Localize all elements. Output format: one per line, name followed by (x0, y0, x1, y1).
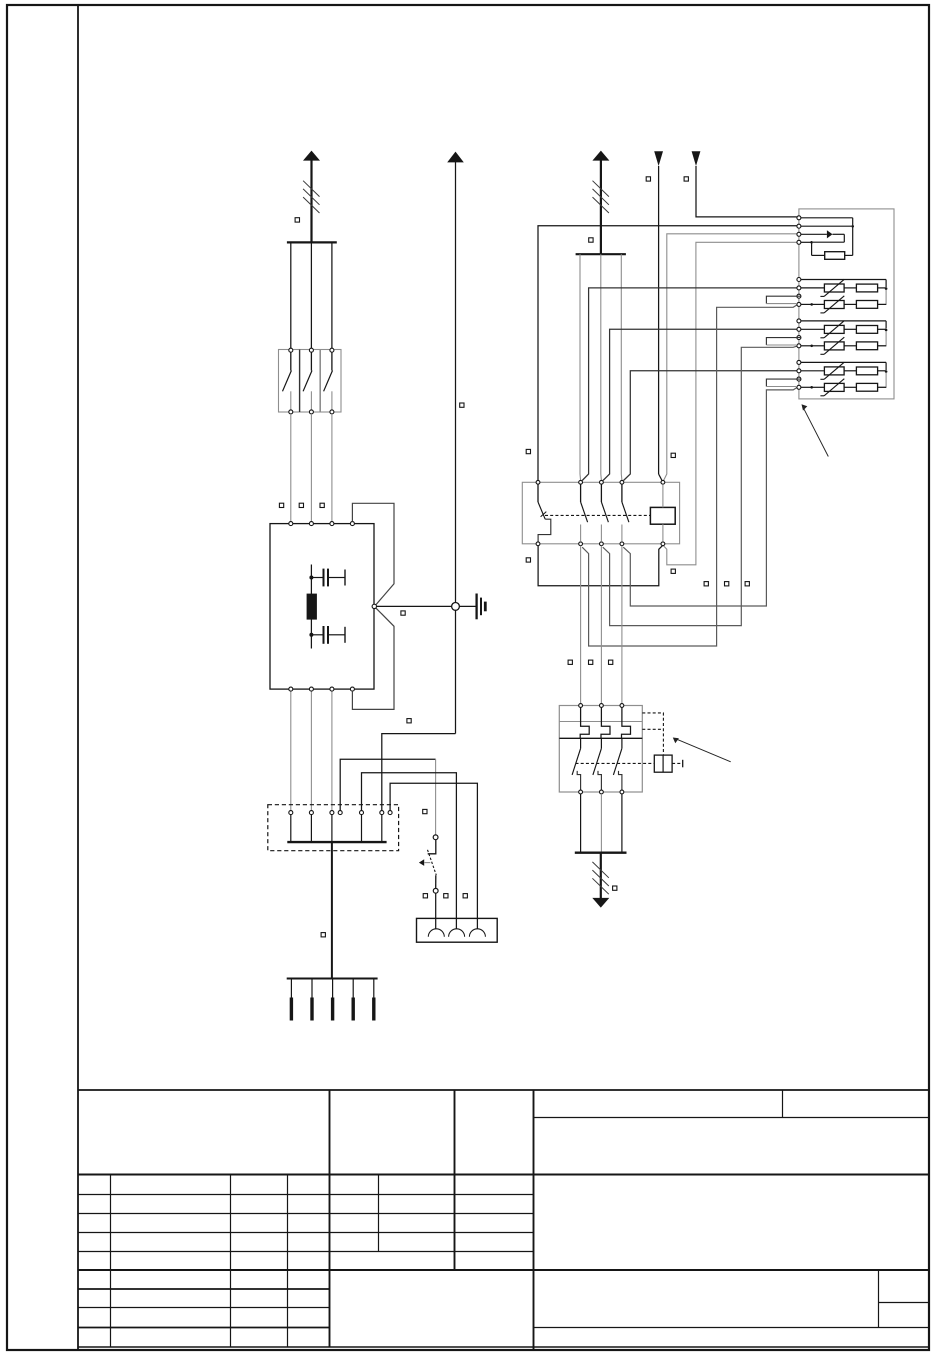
label square near main drop (321, 933, 325, 937)
F1 group 1 output link (878, 290, 887, 305)
XT1 terminal drop to bar (361, 815, 363, 843)
label squares above QF2 (568, 660, 572, 664)
KM1 lower terminal (579, 542, 583, 546)
XT1 terminal (380, 811, 384, 815)
wire KM1 pole2 to SPD group1 return (582, 304, 798, 646)
F1 group 1 bypass wire (801, 279, 886, 281)
F1 group 2 varistor RV3 (801, 328, 825, 330)
contactor KM1 housing (522, 482, 679, 544)
SA1 operator arrow (419, 859, 424, 866)
switch SA1 contact (428, 840, 436, 854)
wire QF1 pole 1 to filter Z1 (290, 414, 292, 522)
incoming supply arrow W3 (592, 151, 609, 161)
wire bus A to QF1 pole1 (290, 242, 292, 348)
wire XT1 to switch SA1 (340, 759, 435, 810)
Z1 capacitor C2 (311, 634, 322, 636)
XT1 collector bar (287, 841, 386, 843)
XT1 terminal (388, 811, 392, 815)
F1 varistor group 2 terminals (797, 319, 801, 323)
wire KM1 aux to SPD terminal 2 (538, 226, 797, 480)
F1 gas tube module (797, 216, 801, 220)
F1 group 1 varistor RV1 (801, 287, 825, 289)
outgoing bus bar node C (575, 852, 627, 854)
QF2 lower terminal (600, 790, 604, 794)
F1 group 1 varistor RV2 (801, 303, 812, 305)
XT1 terminal (338, 811, 342, 815)
KM1 main contact (600, 484, 602, 502)
Z1 shield terminal (372, 604, 376, 608)
F1 varistor group 1 terminals (797, 278, 801, 282)
wire SPD terminal 3 to KM1 coil (664, 234, 797, 480)
circuit breaker QF1 housing (279, 350, 342, 413)
wire KM1 aux lower to coil return (538, 546, 662, 586)
down feeder arrow W5 (692, 151, 701, 166)
QF1 pole 1 contact (289, 348, 293, 352)
wire KM1 pole3 to SPD group2 return (603, 346, 798, 626)
Z1 output terminal (289, 687, 293, 691)
F1 group 2 varistor RV4 (801, 345, 812, 347)
Z1 input terminal (330, 522, 334, 526)
label squares on SPD return wires (704, 582, 708, 586)
QF1 pole 3 contact (330, 348, 334, 352)
KM1 trip link dashed (545, 514, 650, 516)
wire W5 to SPD terminal 1 (696, 166, 797, 217)
QF2 upper terminal (620, 704, 624, 708)
F1 group 1 resistor R1 (844, 287, 856, 289)
wire XT1 to lamp 2 (362, 773, 457, 929)
incoming supply arrow W1 (303, 151, 320, 161)
wire earth to terminal strip XT1 (382, 734, 456, 811)
F1 group 3 T3-T4 jumper (766, 379, 801, 386)
F1 group 3 varistor RV5 (801, 370, 825, 372)
QF2 operator (654, 755, 672, 772)
down feeder arrow W4 (654, 151, 663, 166)
KM1 coil (650, 507, 675, 524)
QF2 thermal element (580, 707, 589, 738)
SA1 lower terminal (435, 875, 437, 888)
PE riser arrow W2 (447, 152, 464, 163)
Z1 capacitor C1 (311, 577, 322, 579)
XT1 terminal drop to bar (290, 815, 292, 843)
label square for W4 (646, 177, 650, 181)
motor breaker QF2 housing (559, 706, 642, 793)
KM1 coil leads (662, 484, 664, 507)
label square for W1 (295, 218, 299, 222)
KM1 lower terminal (536, 542, 540, 546)
QF2 upper terminal (600, 704, 604, 708)
annotation arrow to QF2 (675, 739, 731, 762)
Z1 output terminal (330, 687, 334, 691)
QF2 contact (600, 738, 602, 748)
title block header row line (78, 1174, 929, 1176)
Z1 input terminal (350, 522, 354, 526)
three-phase slashes on W1 (303, 181, 319, 197)
Z1 internal branch wire (310, 565, 312, 649)
F1 group 2 resistor R4 (844, 345, 856, 347)
wire Z1 output to XT1 (310, 691, 312, 811)
wire SPD group2 T2 to KM1 pole3 (603, 329, 797, 480)
F1 group 2 T3-T4 jumper (766, 338, 801, 345)
label square at shield (401, 611, 405, 615)
wire SPD group3 T2 to KM1 pole4 (624, 371, 797, 481)
earth pin (332, 979, 334, 998)
wire bus B to KM1 pole2 (579, 254, 582, 480)
F1 group 2 bypass wire (801, 320, 886, 322)
label squares at SA1 outputs (423, 894, 427, 898)
QF2 upper terminal (579, 704, 583, 708)
Z1 output terminal (350, 687, 354, 691)
KM1 upper terminal (620, 480, 624, 484)
Z1 input terminal (309, 522, 313, 526)
F1 varistor group 3 terminals (797, 360, 801, 364)
Z1 junction dot upper (309, 576, 313, 580)
Z1 shield wrap wire (352, 503, 394, 605)
title block signature rows (78, 1288, 330, 1290)
label square for W2 (460, 403, 464, 407)
title block top line (78, 1089, 929, 1091)
wire KM1 pole2 to QF2 (580, 546, 582, 704)
annotation arrow to F1 (804, 408, 829, 456)
wire SPD terminal 4 to KM1 coil return (664, 242, 797, 565)
F1 group 1 T3-T4 jumper (766, 296, 801, 303)
wire bus B to KM1 pole4 (620, 254, 623, 480)
lamp element (449, 929, 465, 937)
F1 group 3 output link (878, 373, 887, 388)
label square for W5 (684, 177, 688, 181)
lamp element (428, 929, 444, 937)
KM1 main contact (580, 484, 582, 502)
wire Z1 output to XT1 (290, 691, 292, 811)
F1 group 3 bypass wire (801, 361, 886, 363)
label squares below KM1 (526, 558, 530, 562)
wire bus A to QF1 pole2 (310, 242, 312, 348)
F1 group 3 varistor RV6 (801, 386, 812, 388)
XT1 terminal drop to bar (310, 815, 312, 843)
QF2 thermal element (622, 707, 631, 738)
Z1 junction dot lower (309, 633, 313, 637)
KM1 main contact (621, 484, 623, 502)
terminal strip XT1 dashed outline (268, 805, 399, 851)
label squares above Z1 (279, 503, 283, 507)
KM1 upper terminal (661, 480, 665, 484)
XT1 terminal drop to bar (381, 815, 383, 843)
wire earth node down (455, 610, 457, 733)
F1 group 3 resistor R6 (844, 386, 856, 388)
wire QF2 pole2 down (600, 794, 602, 852)
KM1 auxiliary contact (537, 484, 539, 502)
wire QF2 pole1 down (580, 794, 582, 852)
label square for W6 (613, 886, 617, 890)
Z1 internal resistor (filled) (307, 594, 317, 620)
label square near earth wire corner (407, 719, 411, 723)
wire bus A to QF1 pole3 (331, 242, 333, 348)
title block designation cell divider (782, 1090, 784, 1118)
QF2 lower terminal (579, 790, 583, 794)
F1 gas tube resistor (825, 252, 845, 260)
wire QF2 pole3 down (621, 794, 623, 852)
earth distribution bar (287, 978, 378, 980)
KM1 lower terminal (600, 542, 604, 546)
KM1 upper terminal (600, 480, 604, 484)
outgoing feeder arrow W6 (600, 853, 602, 898)
XT1 terminal (360, 811, 364, 815)
XT1 terminal (289, 811, 293, 815)
F1 group 3 resistor R5 (844, 370, 856, 372)
F1 group 2 output link (878, 331, 887, 346)
title block designation row divider (534, 1117, 929, 1119)
EMI filter Z1 enclosure (270, 524, 374, 690)
surge protector F1 enclosure (799, 209, 894, 399)
wire Z1 output to XT1 (331, 691, 333, 811)
bus bar node B (576, 253, 626, 255)
binding margin line (77, 5, 79, 1350)
title block column lines (110, 1175, 112, 1348)
QF2 contact (621, 738, 623, 748)
wire QF1 pole 3 to filter Z1 (331, 414, 333, 522)
QF1 pole 2 contact (309, 348, 313, 352)
switch SA1 upper terminal (433, 835, 438, 840)
wire SPD group1 T2 to KM1 pole2 (582, 288, 797, 481)
QF2 lower terminal (620, 790, 624, 794)
bus bar node A (287, 241, 337, 243)
earth electrode symbol (475, 594, 477, 620)
title block mid thick line (78, 1269, 929, 1271)
title block bottom line (78, 1346, 929, 1348)
earth junction node (452, 603, 460, 611)
wire XT1 to lamp 3 (390, 783, 477, 929)
label squares above KM1 (526, 449, 530, 453)
XT1 terminal drop to bar (331, 815, 333, 843)
F1 group 2 resistor R3 (844, 328, 856, 330)
three-phase slashes on W3 (593, 181, 609, 197)
KM1 upper terminal (536, 480, 540, 484)
QF2 trip bar dashed (576, 762, 655, 764)
wire W4 to KM1 coil terminal (658, 166, 660, 474)
QF2 trip linkage dashed (642, 713, 663, 755)
label square at SA1 input (423, 809, 427, 813)
QF2 contact (580, 738, 582, 748)
QF2 thermal element (601, 707, 610, 738)
earth pin (311, 979, 313, 998)
Z1 input terminal (289, 522, 293, 526)
KM1 upper terminal (579, 480, 583, 484)
earth pin (373, 979, 375, 998)
XT1 terminal (330, 811, 334, 815)
wire KM1 pole4 to SPD group3 return (623, 387, 798, 606)
XT1 terminal (309, 811, 313, 815)
lamp box EL outline (417, 918, 498, 942)
KM1 lower terminal (661, 542, 665, 546)
wire KM1 pole3 to QF2 (600, 546, 602, 704)
main earth conductor (331, 842, 333, 978)
F1 group 1 resistor R2 (844, 303, 856, 305)
earth pin (352, 979, 354, 998)
earth pin (290, 979, 292, 998)
wire bus B to KM1 pole3 (600, 254, 603, 480)
title block right lower cell lines (878, 1270, 880, 1328)
KM1 lower terminal (620, 542, 624, 546)
title block revision rows (78, 1194, 534, 1196)
wire KM1 pole4 to QF2 (621, 546, 623, 704)
Z1 output terminal (309, 687, 313, 691)
wire shield to earth node (377, 605, 476, 607)
label square for W3 (589, 238, 593, 242)
lamp element (469, 929, 485, 937)
wire QF1 pole 2 to filter Z1 (310, 414, 312, 522)
